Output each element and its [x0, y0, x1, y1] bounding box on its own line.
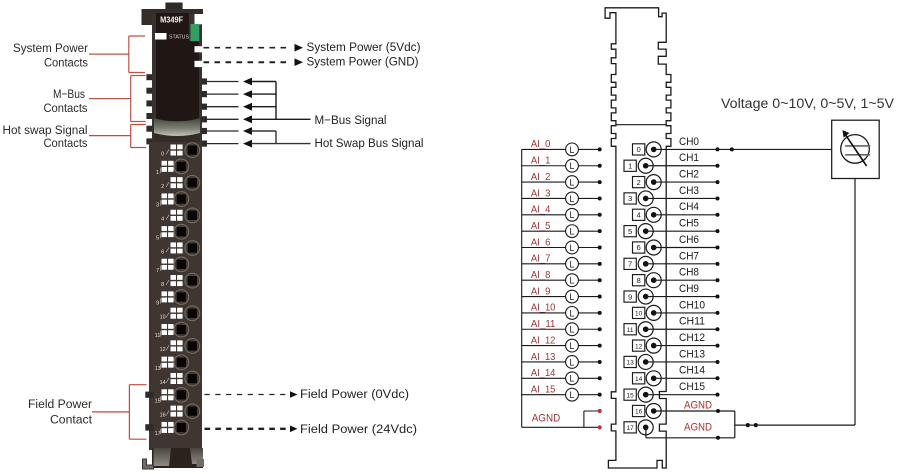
M-Bus signal stub wires: [207, 82, 239, 144]
svg-text:15: 15: [626, 392, 634, 399]
physical terminal 5: [156, 224, 189, 241]
CH14 wire and label: [654, 365, 720, 381]
AI_11 input: label, wire, filter L, junction dot: [522, 319, 602, 336]
svg-text:L: L: [570, 357, 575, 367]
svg-text:CH0: CH0: [679, 136, 699, 148]
CH8 wire and label: [654, 267, 720, 283]
svg-text:CH14: CH14: [679, 365, 705, 377]
svg-text:CH2: CH2: [679, 169, 699, 181]
svg-text:Contact: Contact: [50, 413, 93, 427]
physical terminal 3: [156, 192, 189, 209]
AI_7 input: label, wire, filter L, junction dot: [522, 254, 602, 271]
physical terminal 0: [161, 143, 200, 158]
svg-text:13: 13: [155, 366, 161, 372]
svg-text:3: 3: [628, 194, 632, 203]
terminal 12: pin square, contact circle: [633, 338, 662, 353]
AI_0 input: label, wire, filter L, junction dot: [522, 139, 602, 156]
M-Bus signal arrows: [243, 78, 311, 124]
terminal 15: pin square, contact circle: [624, 387, 653, 402]
svg-text:AI_14: AI_14: [531, 368, 556, 379]
svg-text:Contacts: Contacts: [44, 101, 88, 115]
svg-text:CH10: CH10: [679, 299, 705, 311]
svg-text:7: 7: [156, 268, 159, 274]
svg-text:Field Power: Field Power: [28, 397, 92, 411]
physical terminal 17: [155, 420, 189, 437]
svg-text:Voltage 0~10V, 0~5V, 1~5V: Voltage 0~10V, 0~5V, 1~5V: [721, 96, 894, 111]
svg-text:14: 14: [160, 380, 166, 386]
svg-text:AI_3: AI_3: [531, 188, 551, 199]
AI_10 input: label, wire, filter L, junction dot: [522, 303, 602, 320]
svg-text:CH7: CH7: [679, 250, 699, 262]
Hot Swap signal arrows: [243, 127, 311, 147]
latch lower dark strip: [154, 133, 200, 143]
physical terminal 7: [156, 257, 189, 274]
svg-text:10: 10: [635, 311, 643, 318]
svg-text:L: L: [570, 243, 575, 253]
svg-text:CH4: CH4: [679, 201, 699, 213]
svg-text:0: 0: [636, 145, 640, 154]
svg-text:7: 7: [628, 260, 632, 269]
svg-text:AI_7: AI_7: [531, 254, 551, 265]
svg-text:9: 9: [156, 301, 159, 307]
CH1 wire and label: [646, 152, 720, 168]
svg-text:AI_15: AI_15: [531, 384, 556, 395]
svg-text:System Power (5Vdc): System Power (5Vdc): [307, 40, 421, 54]
svg-text:CH13: CH13: [679, 348, 705, 360]
svg-text:System Power: System Power: [13, 41, 88, 55]
AI_12 input: label, wire, filter L, junction dot: [522, 335, 602, 352]
svg-text:16: 16: [635, 409, 643, 416]
dashed arrow: System Power (5Vdc): [204, 40, 421, 54]
svg-text:AI_11: AI_11: [531, 319, 556, 330]
svg-text:0: 0: [161, 151, 164, 157]
svg-text:M−Bus Signal: M−Bus Signal: [315, 113, 387, 127]
svg-text:1: 1: [156, 170, 159, 176]
CH2 wire and label: [654, 169, 720, 185]
physical terminal 10: [160, 306, 200, 321]
AGND field label and wires: [522, 409, 602, 430]
svg-text:11: 11: [627, 327, 634, 334]
svg-text:AI_13: AI_13: [531, 352, 556, 363]
field power contact tab (row 17): [145, 424, 153, 430]
svg-text:AI_1: AI_1: [531, 156, 551, 167]
run LED (green): [191, 24, 200, 41]
terminal 8: pin square, contact circle: [633, 273, 662, 288]
physical terminal 15: [155, 388, 189, 405]
terminal 17: pin square, contact circle: [624, 420, 653, 435]
AGND terminal 16 wire: [654, 399, 735, 413]
svg-text:6: 6: [161, 249, 164, 255]
svg-text:1: 1: [628, 161, 632, 170]
CH11 wire and label: [646, 316, 720, 332]
physical terminal 13: [155, 355, 189, 372]
left side bus contact tabs: [146, 74, 152, 144]
svg-text:Field Power (24Vdc): Field Power (24Vdc): [300, 422, 417, 436]
terminal 10: pin square, contact circle: [633, 305, 662, 320]
svg-text:Hot Swap Bus Signal: Hot Swap Bus Signal: [315, 136, 424, 150]
CH9 wire and label: [646, 283, 720, 299]
svg-text:14: 14: [635, 376, 643, 383]
AI_4 input: label, wire, filter L, junction dot: [522, 205, 602, 222]
svg-text:L: L: [570, 341, 575, 351]
dashed arrow: System Power (GND): [204, 55, 419, 69]
svg-text:L: L: [570, 390, 575, 400]
label System Power Contacts: [13, 41, 88, 70]
svg-text:12: 12: [160, 347, 166, 353]
dashed arrow: Field Power (0Vdc): [205, 387, 410, 401]
physical terminal 6: [161, 241, 200, 256]
svg-text:L: L: [570, 161, 575, 171]
AI_2 input: label, wire, filter L, junction dot: [522, 172, 602, 189]
top-right white notch: [195, 14, 204, 24]
module outline (schematic): [605, 8, 671, 468]
svg-text:17: 17: [626, 425, 634, 432]
AI_9 input: label, wire, filter L, junction dot: [522, 286, 602, 303]
AI_1 input: label, wire, filter L, junction dot: [522, 156, 602, 173]
AGND terminal 17 wire: [646, 422, 735, 440]
AI_14 input: label, wire, filter L, junction dot: [522, 368, 602, 385]
svg-text:M349F: M349F: [160, 14, 183, 24]
svg-text:11: 11: [155, 333, 161, 339]
svg-text:13: 13: [626, 360, 634, 367]
label Hot swap Signal Contacts: [3, 123, 88, 150]
CH0 wire and label: [654, 136, 720, 152]
svg-text:CH8: CH8: [679, 267, 699, 279]
physical terminal 2: [161, 175, 200, 190]
terminal 4: pin square, contact circle: [633, 207, 662, 222]
svg-text:System Power (GND): System Power (GND): [307, 55, 419, 69]
module top tab: [165, 3, 182, 11]
dashed arrow: Field Power (24Vdc): [205, 422, 418, 436]
AGND return bus to source: [735, 163, 855, 438]
module base: [152, 448, 203, 468]
svg-text:8: 8: [636, 276, 640, 285]
terminal 16: pin square, contact circle: [633, 404, 662, 419]
module inner dark panel: [156, 13, 199, 121]
svg-text:AI_9: AI_9: [531, 286, 551, 297]
svg-text:L: L: [570, 259, 575, 269]
bracket: hot swap signal contacts: [89, 125, 146, 148]
svg-text:L: L: [570, 308, 575, 318]
svg-text:L: L: [570, 374, 575, 384]
AI_3 input: label, wire, filter L, junction dot: [522, 188, 602, 205]
CH3 wire and label: [646, 185, 720, 201]
svg-text:AGND: AGND: [532, 413, 561, 425]
svg-text:CH11: CH11: [679, 316, 705, 328]
AI field wiring bus: [521, 149, 523, 427]
svg-text:AI_10: AI_10: [531, 303, 556, 314]
CH6 wire and label: [654, 234, 720, 250]
svg-text:L: L: [570, 276, 575, 286]
physical terminal 9: [156, 290, 189, 307]
svg-text:CH5: CH5: [679, 218, 699, 230]
AI_5 input: label, wire, filter L, junction dot: [522, 221, 602, 238]
svg-text:8: 8: [161, 282, 164, 288]
svg-text:9: 9: [628, 292, 632, 301]
CH5 wire and label: [646, 218, 720, 234]
terminal 1: pin square, contact circle: [624, 158, 653, 173]
bracket: field power contact: [92, 385, 147, 440]
svg-text:2: 2: [636, 178, 640, 187]
svg-text:STATUS: STATUS: [169, 34, 189, 40]
svg-text:L: L: [570, 292, 575, 302]
svg-text:Contacts: Contacts: [44, 136, 88, 150]
svg-text:M−Bus: M−Bus: [53, 87, 85, 101]
AI_13 input: label, wire, filter L, junction dot: [522, 352, 602, 369]
CH0 wire to voltage source: [718, 147, 841, 151]
terminal 0: pin square, contact circle: [633, 142, 662, 157]
svg-text:CH6: CH6: [679, 234, 699, 246]
svg-text:CH9: CH9: [679, 283, 699, 295]
svg-text:AGND: AGND: [684, 422, 712, 434]
svg-text:AI_12: AI_12: [531, 335, 556, 346]
svg-text:15: 15: [155, 399, 161, 405]
CH12 wire and label: [654, 332, 720, 348]
status LED square: [155, 33, 167, 40]
terminal 14: pin square, contact circle: [633, 371, 662, 386]
physical terminal 11: [155, 322, 189, 339]
svg-text:17: 17: [155, 431, 161, 437]
terminal 5: pin square, contact circle: [624, 224, 653, 239]
right side bus contact tabs: [202, 78, 207, 146]
module M349F (physical view): [142, 3, 208, 470]
module right foot: [197, 459, 205, 467]
svg-text:10: 10: [160, 315, 166, 321]
physical terminal 8: [161, 273, 200, 288]
AI_6 input: label, wire, filter L, junction dot: [522, 237, 602, 254]
bracket: M-Bus contacts: [89, 76, 146, 122]
svg-text:12: 12: [635, 343, 643, 350]
module upper body: [152, 14, 202, 150]
svg-text:6: 6: [636, 243, 640, 252]
svg-text:AI_5: AI_5: [531, 221, 551, 232]
svg-text:AI_8: AI_8: [531, 270, 551, 281]
AI_15 input: label, wire, filter L, junction dot: [522, 384, 602, 401]
voltage source VS1: [832, 120, 880, 178]
svg-text:Field Power (0Vdc): Field Power (0Vdc): [300, 387, 409, 401]
svg-text:L: L: [570, 325, 575, 335]
svg-text:CH15: CH15: [679, 381, 705, 393]
svg-text:Contacts: Contacts: [44, 56, 88, 70]
AGND red junction dot row17: [598, 425, 602, 429]
terminal 6: pin square, contact circle: [633, 240, 662, 255]
svg-text:5: 5: [156, 235, 159, 241]
svg-text:L: L: [570, 194, 575, 204]
svg-text:AI_4: AI_4: [531, 205, 551, 216]
svg-text:L: L: [570, 178, 575, 188]
terminal 13: pin square, contact circle: [624, 354, 653, 369]
CH10 wire and label: [654, 299, 720, 315]
svg-text:L: L: [570, 145, 575, 155]
module top brim: [142, 9, 204, 25]
terminal 2: pin square, contact circle: [633, 175, 662, 190]
CH4 wire and label: [654, 201, 720, 217]
svg-text:AI_2: AI_2: [531, 172, 551, 183]
svg-text:AI_0: AI_0: [531, 139, 551, 150]
physical terminal 16: [160, 404, 200, 419]
label Field Power Contact: [28, 397, 93, 426]
terminal 7: pin square, contact circle: [624, 256, 653, 271]
field power contact tab (row 15): [145, 392, 153, 398]
physical terminal 4: [161, 208, 200, 223]
svg-text:16: 16: [160, 413, 166, 419]
svg-text:4: 4: [636, 211, 641, 220]
physical terminal 14: [160, 371, 200, 386]
module terminal body: [149, 142, 202, 450]
AI_8 input: label, wire, filter L, junction dot: [522, 270, 602, 287]
svg-text:2: 2: [161, 184, 164, 190]
svg-text:AGND: AGND: [684, 399, 712, 411]
svg-text:L: L: [570, 227, 575, 237]
CH13 wire and label: [646, 348, 720, 364]
svg-text:Hot swap Signal: Hot swap Signal: [3, 123, 88, 137]
physical terminal 1: [156, 159, 189, 176]
module left foot: [143, 459, 154, 469]
svg-text:3: 3: [156, 203, 159, 209]
svg-text:4: 4: [161, 217, 164, 223]
svg-text:L: L: [570, 210, 575, 220]
svg-text:5: 5: [628, 227, 632, 236]
CH7 wire and label: [646, 250, 720, 266]
terminal 3: pin square, contact circle: [624, 191, 653, 206]
system power contact notch 2: [195, 61, 203, 67]
label M-Bus Contacts: [44, 87, 88, 115]
CH15 wire and label: [646, 381, 720, 397]
svg-text:CH12: CH12: [679, 332, 705, 344]
bracket: system power contacts: [89, 36, 145, 73]
svg-text:CH3: CH3: [679, 185, 699, 197]
physical terminal 12: [160, 339, 200, 354]
module internal divider: [616, 124, 666, 126]
terminal 11: pin square, contact circle: [624, 322, 653, 337]
terminal 9: pin square, contact circle: [624, 289, 653, 304]
svg-text:CH1: CH1: [679, 152, 699, 164]
system power contact notch 1: [195, 46, 203, 52]
AGND red junction dot row16: [598, 409, 602, 413]
svg-text:AI_6: AI_6: [531, 237, 551, 248]
